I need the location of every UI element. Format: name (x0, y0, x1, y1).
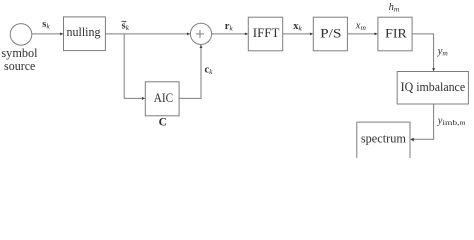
svg-text:source: source (4, 59, 36, 73)
P/S box (313, 17, 347, 51)
arrowhead into adder left (187, 33, 190, 36)
wire source to nulling (32, 33, 61, 35)
symbol source circle (10, 24, 32, 46)
AIC box (145, 82, 179, 116)
arrowhead into IQ imbalance (432, 68, 435, 71)
svg-text:ck: ck (205, 64, 214, 76)
arrowhead into adder bottom (200, 45, 203, 48)
wire AIC to adder (179, 48, 201, 99)
wire adder to IFFT (212, 33, 246, 35)
svg-text:ym: ym (437, 46, 449, 58)
wire nulling to adder (105, 33, 187, 35)
adder circle (190, 23, 211, 44)
arrowhead into FIR (375, 33, 378, 36)
svg-text:P/S: P/S (320, 27, 341, 41)
FIR box (378, 17, 412, 51)
svg-text:FIR: FIR (385, 27, 407, 41)
IQ imbalance box (397, 72, 468, 105)
svg-text:AIC: AIC (154, 91, 173, 105)
spectrum box (357, 122, 410, 160)
svg-text:hm: hm (389, 2, 400, 14)
svg-text:C: C (159, 117, 167, 129)
svg-text:yimb,m: yimb,m (437, 115, 466, 127)
svg-text:nulling: nulling (67, 25, 102, 39)
svg-text:IFFT: IFFT (253, 26, 280, 40)
wire P/S to FIR (347, 33, 375, 35)
plus sign (196, 33, 204, 35)
svg-text:rk: rk (225, 21, 234, 33)
svg-text:xm: xm (355, 21, 367, 33)
nulling box (64, 17, 106, 51)
IFFT box (248, 17, 282, 51)
arrowhead into nulling (60, 33, 63, 36)
tilde accent over s (122, 20, 127, 23)
arrowhead into P/S (310, 33, 313, 36)
wire IFFT to P/S (283, 33, 311, 35)
svg-text:sk: sk (122, 21, 130, 33)
arrowhead into spectrum (410, 138, 413, 142)
arrowhead into IFFT (245, 33, 248, 36)
wire FIR to IQ imbalance (412, 34, 434, 69)
svg-text:symbol: symbol (1, 46, 38, 60)
arrowhead into AIC (142, 97, 145, 100)
wire branch down to AIC (124, 34, 142, 99)
svg-text:spectrum: spectrum (361, 132, 406, 146)
svg-text:xk: xk (293, 21, 302, 33)
svg-text:sk: sk (42, 19, 50, 31)
svg-text:IQ imbalance: IQ imbalance (401, 80, 466, 94)
wire IQ imbalance to spectrum (413, 104, 433, 139)
